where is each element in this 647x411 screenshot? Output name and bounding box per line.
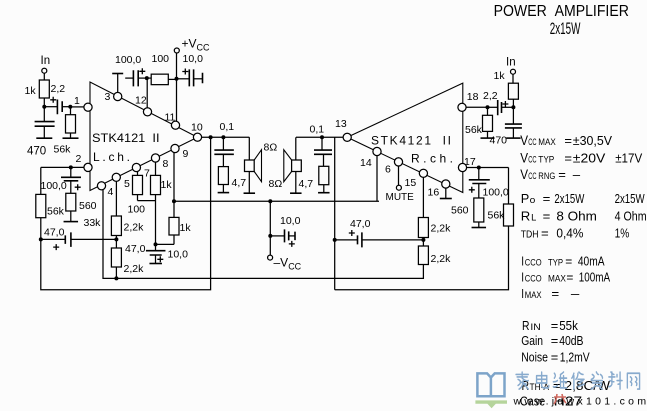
capacitor 100,0 (VCC filter) xyxy=(133,70,138,86)
wire elco down xyxy=(155,255,157,264)
capacitor 2,2 (right coupling) xyxy=(498,100,502,115)
svg-text:56k: 56k xyxy=(47,206,65,218)
wire C100,0 to R560 right xyxy=(478,184,480,199)
svg-text:47,0: 47,0 xyxy=(350,218,371,230)
wire R1k to node xyxy=(43,98,45,107)
wire R100 to VCC node xyxy=(168,78,176,80)
svg-text:RL=8 Ohm4 Ohm: RL=8 Ohm4 Ohm xyxy=(521,209,647,224)
wire C2,2 to node xyxy=(502,106,514,108)
pin 9 xyxy=(171,144,179,152)
junction inner rail left xyxy=(114,276,118,280)
op-amp U1 STK4121 II left channel triangle xyxy=(90,82,198,191)
svg-text:13: 13 xyxy=(335,118,347,130)
wire R100 to R1k bottom xyxy=(138,200,156,202)
wire to left speaker xyxy=(248,137,250,160)
resistor 100 (pin7 branch) xyxy=(133,175,143,194)
svg-text:Noise=1,2mV: Noise=1,2mV xyxy=(521,349,590,364)
svg-text:11: 11 xyxy=(165,112,176,124)
resistor 1k (pin9 branch) xyxy=(169,217,179,235)
wire to C10,0 xyxy=(177,78,190,80)
svg-text:MUTE: MUTE xyxy=(386,192,415,203)
wire pin2 left xyxy=(41,166,84,168)
svg-text:1k: 1k xyxy=(161,179,173,191)
wire to C10,0 neg xyxy=(270,235,284,237)
svg-text:100,0: 100,0 xyxy=(115,54,141,66)
wire 2,2k to inner rail xyxy=(115,267,117,278)
wire node to pin 12 xyxy=(146,78,148,108)
resistor 560 (right) xyxy=(474,198,484,222)
speaker right 8ohm xyxy=(292,160,302,172)
terminal -VCC xyxy=(268,255,273,260)
terminal bar under C470 xyxy=(36,137,52,139)
capacitor 2,2 (left coupling) xyxy=(57,100,62,115)
svg-text:2x15W: 2x15W xyxy=(550,20,581,38)
svg-text:47,0: 47,0 xyxy=(44,227,65,239)
svg-text:1k: 1k xyxy=(180,222,192,234)
wire between 2,2k right xyxy=(422,238,424,247)
junction 47,0 feedback node xyxy=(114,237,118,241)
wire -VCC drop xyxy=(269,201,271,255)
svg-text:18: 18 xyxy=(467,91,479,103)
svg-text:1: 1 xyxy=(74,95,80,107)
watermark book icon xyxy=(477,373,504,396)
polarity + C2,2 right xyxy=(502,101,508,107)
svg-text:2: 2 xyxy=(76,153,82,165)
svg-text:10,0: 10,0 xyxy=(280,215,301,227)
svg-text:100: 100 xyxy=(128,204,146,216)
wire between 2,2k xyxy=(115,236,117,249)
svg-text:0,1: 0,1 xyxy=(310,124,325,136)
pin 3 xyxy=(114,92,122,100)
wire In to R 1k xyxy=(43,73,45,80)
svg-text:470: 470 xyxy=(27,146,46,158)
wire R1k-2 down xyxy=(173,235,175,244)
pin 6 xyxy=(394,158,402,166)
capacitor 0,1 (right snubber) xyxy=(314,150,332,154)
polarity + C47,0 right xyxy=(349,230,355,236)
terminal bar left snubber xyxy=(218,192,230,194)
capacitor 47,0 (right feedback) xyxy=(358,232,362,247)
junction right input node2 xyxy=(486,105,490,109)
polarity + C100,0 fb xyxy=(75,184,81,190)
terminal bar C10,0 neg xyxy=(294,232,296,241)
junction rail left end xyxy=(172,199,176,203)
svg-text:1k: 1k xyxy=(494,70,506,82)
junction C10,0 neg tap xyxy=(268,234,272,238)
pin 15 xyxy=(419,169,427,177)
svg-text:56k: 56k xyxy=(54,144,72,156)
svg-text:5: 5 xyxy=(124,178,130,190)
resistor 100 (VCC) xyxy=(151,74,168,85)
junction -VCC tap xyxy=(268,199,272,203)
wire rail to R1k-2 xyxy=(173,201,175,217)
terminal +VCC xyxy=(174,48,179,53)
svg-text:VCCRNG=–: VCCRNG=– xyxy=(520,166,581,182)
wire to C47,0 xyxy=(41,238,66,240)
capacitor 10,0 (ripple left) xyxy=(146,251,166,255)
wire node2 to pin1 xyxy=(70,106,84,108)
wire C100,0 to R100 xyxy=(138,77,151,79)
svg-text:RIN=55k: RIN=55k xyxy=(522,318,578,333)
wire node to C100,0 xyxy=(70,167,72,177)
svg-text:33k: 33k xyxy=(84,217,102,229)
capacitor 10,0 (VCC) xyxy=(189,69,193,86)
junction 47,0 right left-node xyxy=(333,238,337,242)
wire R4,7 down xyxy=(222,185,224,193)
svg-text:47,0: 47,0 xyxy=(125,243,146,255)
svg-text:L.ch.: L.ch. xyxy=(93,150,130,164)
wire left feedback loop xyxy=(41,137,211,290)
resistor 4,7 (right snubber) xyxy=(319,166,329,184)
svg-text:ICCOMAX=100mA: ICCOMAX=100mA xyxy=(521,270,610,285)
wire R1k right to node xyxy=(512,99,514,107)
wire +VCC vertical xyxy=(176,53,178,121)
svg-text:2,2k: 2,2k xyxy=(431,253,452,265)
svg-text:4: 4 xyxy=(108,186,114,198)
svg-text:4,7: 4,7 xyxy=(232,177,247,189)
svg-text:STK4121 II: STK4121 II xyxy=(371,134,451,148)
wire R560 down xyxy=(70,211,72,222)
svg-text:VCCMAX=±30,5V: VCCMAX=±30,5V xyxy=(520,132,612,148)
svg-text:www.jdwx101.com: www.jdwx101.com xyxy=(513,396,647,408)
svg-text:+VCC: +VCC xyxy=(182,37,211,53)
wire to right speaker xyxy=(295,137,297,160)
pin 18 xyxy=(458,103,466,111)
svg-text:2,2: 2,2 xyxy=(483,90,498,102)
svg-text:6: 6 xyxy=(385,164,391,176)
junction pin2 net xyxy=(69,165,73,169)
capacitor 100,0 (left feedback) xyxy=(61,177,81,181)
pin 14 xyxy=(373,147,381,155)
wire pin16 down xyxy=(445,188,447,198)
speaker left 8ohm xyxy=(245,160,255,172)
wire R4,7 right down xyxy=(323,185,325,193)
svg-text:0,1: 0,1 xyxy=(220,121,235,133)
wire pin4 to inner ground rail xyxy=(103,190,423,278)
svg-text:470: 470 xyxy=(490,135,508,147)
wire pin14 down xyxy=(376,156,378,202)
wire to C47,0 right xyxy=(335,239,358,241)
svg-text:4,7: 4,7 xyxy=(299,178,314,190)
svg-text:IMAX=–: IMAX=– xyxy=(521,286,580,301)
wire In right down xyxy=(512,74,514,83)
wire C10,0 right lead xyxy=(194,78,203,80)
polarity + elco xyxy=(157,256,163,262)
terminal bar C470 right xyxy=(506,137,521,139)
pin 16 xyxy=(442,180,450,188)
svg-text:8Ω: 8Ω xyxy=(269,178,283,190)
wire R56k to node xyxy=(40,218,42,240)
resistor 56k (right input) xyxy=(483,115,493,131)
polarity + C10,0 neg xyxy=(289,241,295,247)
svg-text:POWER AMPLIFIER: POWER AMPLIFIER xyxy=(494,3,629,20)
pin 7 xyxy=(132,163,140,171)
svg-text:14: 14 xyxy=(360,157,372,169)
wire right feedback vertical xyxy=(334,137,336,289)
wire pin6 down xyxy=(398,166,400,185)
junction feedback tap left xyxy=(209,135,213,139)
wire node2 to R56k xyxy=(70,107,72,115)
wire R560 right down xyxy=(478,222,480,228)
svg-text:100: 100 xyxy=(152,53,170,65)
capacitor 470 (right input) xyxy=(505,124,522,128)
capacitor 470 (left input) xyxy=(35,122,55,127)
terminal bar under R56k xyxy=(63,137,79,139)
resistor 2,2k (upper left) xyxy=(111,216,121,236)
svg-text:STK4121 II: STK4121 II xyxy=(92,131,160,145)
junction 47,0 right node xyxy=(421,238,425,242)
svg-text:56k: 56k xyxy=(465,124,483,136)
terminal MUTE xyxy=(396,185,401,190)
wire pin18 right xyxy=(466,106,487,108)
resistor 2,2k (lower right) xyxy=(418,246,428,265)
junction elco node xyxy=(154,242,158,246)
wire R100 down xyxy=(137,195,139,201)
wire C100,0 left lead xyxy=(125,77,133,79)
wire R1k pin8 down xyxy=(155,195,157,245)
svg-text:100,0: 100,0 xyxy=(483,187,509,199)
capacitor 0,1 (left snubber) xyxy=(214,150,234,154)
wire pin9 down xyxy=(173,153,175,202)
svg-text:560: 560 xyxy=(451,205,469,217)
pin 2 xyxy=(84,163,92,171)
wire R56k right down xyxy=(487,131,489,138)
pin 10 xyxy=(193,133,201,141)
resistor 56k (left input) xyxy=(66,115,76,133)
resistor 1k (pin8 branch) xyxy=(151,175,161,194)
svg-text:Gain=40dB: Gain=40dB xyxy=(521,333,583,348)
junction right input node xyxy=(511,105,515,109)
pin 1 xyxy=(84,103,92,111)
wire pin17 right xyxy=(467,167,509,169)
wire C470 to terminal xyxy=(43,126,45,138)
wire pin8 down xyxy=(155,162,157,175)
svg-text:1k: 1k xyxy=(25,85,37,97)
svg-text:560: 560 xyxy=(79,200,97,212)
capacitor 47,0 (left feedback) xyxy=(65,232,71,247)
polarity + C2,2 xyxy=(50,97,56,103)
junction pin17 net xyxy=(477,166,481,170)
wire pin3 up xyxy=(117,74,119,93)
pin 11 xyxy=(171,121,179,129)
capacitor 100,0 (right feedback) xyxy=(469,180,490,184)
wire left speaker down xyxy=(248,172,250,194)
junction snubber tap left xyxy=(221,135,225,139)
terminal bar R560 xyxy=(64,221,79,223)
svg-text:Po=2x15W2x15W: Po=2x15W2x15W xyxy=(521,191,645,206)
terminal bar left speaker xyxy=(244,192,256,194)
pin 8 xyxy=(151,154,159,162)
svg-text:2,2k: 2,2k xyxy=(124,263,145,275)
pin 5 xyxy=(112,173,120,181)
wire R56k to terminal xyxy=(70,133,72,138)
resistor 1k (right input) xyxy=(508,83,518,99)
wire pin17 net down xyxy=(508,168,510,205)
op-amp U2 STK4121 II right channel triangle xyxy=(347,83,463,192)
wire C47,0 right to node xyxy=(362,239,424,241)
resistor 56k (left feedback) xyxy=(36,194,46,217)
svg-text:12: 12 xyxy=(135,95,147,107)
resistor 2,2k (upper right) xyxy=(418,218,428,238)
wire node to C100,0 right xyxy=(478,168,480,180)
terminal bar R560 right xyxy=(472,227,487,229)
resistor 56k (right feedback) xyxy=(504,204,514,226)
terminal bar elco xyxy=(149,263,162,265)
svg-text:16: 16 xyxy=(428,187,440,199)
wire pin15 down xyxy=(422,177,424,217)
wire pin7 down xyxy=(137,172,139,176)
wire to C0,1 xyxy=(222,137,224,150)
svg-text:17: 17 xyxy=(464,156,476,168)
pin 4 xyxy=(97,182,105,190)
svg-text:56k: 56k xyxy=(488,210,506,222)
wire pin2 net down xyxy=(40,167,42,194)
terminal In left xyxy=(42,68,47,73)
svg-text:In: In xyxy=(41,55,51,67)
svg-text:In: In xyxy=(506,57,516,69)
svg-text:2,2k: 2,2k xyxy=(124,222,145,234)
svg-text:8: 8 xyxy=(163,158,169,170)
wire pin5 down xyxy=(115,181,117,216)
wire right speaker down xyxy=(295,172,297,194)
svg-text:VCCTYP=±20V±17V: VCCTYP=±20V±17V xyxy=(520,149,642,165)
capacitor 10,0 (negative rail) xyxy=(285,229,289,242)
junction node pin12 top xyxy=(145,76,149,80)
wire node to C2,2 xyxy=(44,106,57,108)
svg-text:7: 7 xyxy=(144,168,150,180)
svg-text:10,0: 10,0 xyxy=(168,249,189,261)
svg-text:15: 15 xyxy=(405,177,417,189)
junction node left input xyxy=(42,105,46,109)
wire C47,0 to 2,2k node xyxy=(71,238,117,240)
svg-text:100,0: 100,0 xyxy=(41,180,67,192)
svg-text:2,2k: 2,2k xyxy=(431,223,452,235)
wire node to C470 xyxy=(43,107,45,122)
wire C2,2 to node2 xyxy=(62,106,70,108)
terminal bar C10,0 xyxy=(202,73,204,84)
resistor 560 (left) xyxy=(66,193,76,211)
pin 17 xyxy=(458,163,466,171)
junction 47,0 left node xyxy=(39,237,43,241)
svg-text:9: 9 xyxy=(183,148,189,160)
polarity + C100,0 right xyxy=(469,187,475,193)
resistor 2,2k (lower left) xyxy=(111,248,121,267)
wire node to C470 right xyxy=(512,107,514,124)
svg-text:3: 3 xyxy=(105,91,111,103)
svg-text:2,2: 2,2 xyxy=(51,83,66,95)
watermark red mark xyxy=(554,394,566,404)
svg-text:10: 10 xyxy=(191,122,203,134)
resistor 1k (left input) xyxy=(39,80,49,98)
junction VCC node xyxy=(175,77,179,81)
wire node2 to R56k right xyxy=(487,107,489,115)
watermark book base green xyxy=(475,400,507,408)
polarity + C10,0 xyxy=(182,69,188,75)
wire C0,1 to R4,7 xyxy=(222,154,224,166)
wire to C0,1 right xyxy=(321,137,323,150)
wire C0,1 to R4,7 right xyxy=(323,154,325,166)
terminal bar right snubber xyxy=(318,192,330,194)
wire C100,0 to R560 xyxy=(70,181,72,194)
wire pin10 output xyxy=(202,136,250,138)
junction node2 left input xyxy=(68,105,72,109)
watermark chinese text jiadianweixiuziliaowang xyxy=(516,372,640,389)
terminal bar R56k right xyxy=(481,137,495,139)
terminal bar pin16 xyxy=(440,198,452,200)
svg-text:TDH=0,4%1%: TDH=0,4%1% xyxy=(521,226,630,241)
polarity + C100,0 xyxy=(139,68,145,74)
wire right feedback loop xyxy=(335,226,509,290)
wire pin13 output xyxy=(296,136,343,138)
svg-text:10,0: 10,0 xyxy=(183,53,204,65)
polarity + C47,0 xyxy=(53,244,59,250)
terminal bar pin 3 xyxy=(112,73,123,75)
wire C10,0 neg right lead xyxy=(289,235,295,237)
wire to elco node xyxy=(156,243,175,245)
resistor 4,7 (left snubber) xyxy=(218,167,228,185)
svg-text:R.ch.: R.ch. xyxy=(411,151,453,165)
speaker return rail xyxy=(174,200,379,202)
wire node2 to C2,2 xyxy=(488,106,498,108)
svg-text:–VCC: –VCC xyxy=(274,256,302,272)
svg-text:8Ω: 8Ω xyxy=(264,142,278,154)
pin 12 xyxy=(143,108,151,116)
junction snubber tap right xyxy=(320,135,324,139)
wire node to elco xyxy=(155,244,157,250)
terminal In right xyxy=(511,69,516,74)
terminal bar right speaker xyxy=(290,192,302,194)
pin 13 xyxy=(343,133,351,141)
wire C470 right down xyxy=(512,128,514,138)
svg-text:ICCOTYP=40mA: ICCOTYP=40mA xyxy=(521,254,604,269)
